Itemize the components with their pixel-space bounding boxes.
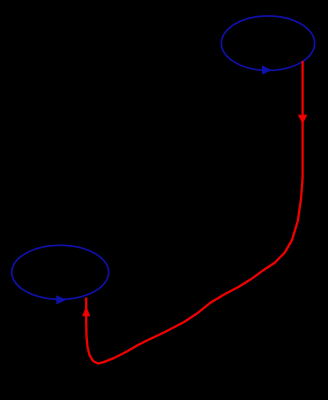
arrowhead on limit cycle A [262, 65, 272, 74]
red arrowhead (upward, entering limit cycle B) [82, 306, 90, 316]
red arrowhead (downward, on vertical segment) [298, 115, 307, 124]
limit cycle A (top-right blue ellipse) [221, 16, 314, 70]
arrowhead on limit cycle B [56, 295, 66, 304]
red heteroclinic trajectory [86, 61, 302, 364]
limit cycle B (bottom-left blue ellipse) [12, 245, 109, 299]
